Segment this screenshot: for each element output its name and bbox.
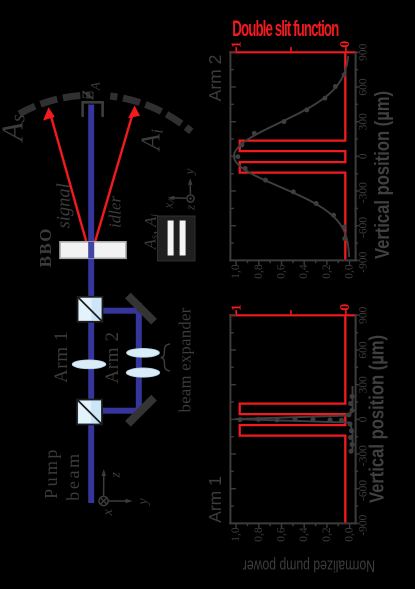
pump line through BBO [88,242,94,258]
interferometer arm-2 loop vertical blue line [136,303,142,413]
svg-text:0,2: 0,2 [321,527,333,542]
beam expander lens 2 (Arm 2) [126,368,160,377]
Arm 1: power-axis ticks [349,523,351,528]
svg-text:xA: xA [160,197,176,210]
Arm 2: red right-axis spine [229,51,356,53]
svg-text:1: 1 [229,41,244,48]
svg-text:0,4: 0,4 [298,264,310,279]
Arm 2: power-axis ticks [349,260,351,265]
svg-text:zA: zA [73,82,102,100]
svg-text:0,6: 0,6 [276,264,288,279]
brace for beam expander [161,344,171,371]
Arm 1: data points [238,394,355,454]
mirror M1 (lower right) [125,395,157,427]
svg-text:As: As [0,114,30,143]
slit 2 (white) [180,221,186,256]
svg-text:0,4: 0,4 [298,527,310,542]
wire: blue connector BS1-to-mirror M1 (lower) [94,408,142,414]
slit 1 (white) [168,221,174,256]
Arm 2: black axis spines [229,52,356,261]
svg-text:-300: -300 [358,182,370,203]
Arm 2: black gaussian pump-profile curve [234,56,349,257]
Arm 1: red right-axis spine [229,314,356,316]
svg-text:Double slit function: Double slit function [232,17,338,41]
svg-text:Normalized pump power: Normalized pump power [243,556,375,574]
Arm 2: data points [235,72,347,241]
svg-text:0,8: 0,8 [253,527,265,542]
detection plane bracket at z_A [83,102,103,117]
Arm 1: black axis spines [229,315,356,524]
svg-text:y: y [136,498,151,507]
far-field dashed arc (left part) [19,95,90,114]
double slit aperture icon [158,216,196,261]
svg-text:Vertical position (µm): Vertical position (µm) [370,91,393,259]
svg-text:-600: -600 [358,217,370,238]
svg-text:signal: signal [54,183,74,228]
svg-text:0: 0 [338,41,353,48]
Arm 2: red double-slit transmission function [240,53,346,259]
aperture-plane axes (z out of page, x_A, y) [168,178,195,202]
svg-text:0,0: 0,0 [344,527,356,542]
svg-text:BBO: BBO [36,227,55,267]
svg-text:Ai: Ai [136,129,167,153]
svg-text:900: 900 [358,43,370,61]
svg-text:Vertical position (µm): Vertical position (µm) [365,335,388,503]
svg-text:Arm 2: Arm 2 [205,55,225,102]
svg-text:0,0: 0,0 [344,264,356,279]
svg-text:z: z [108,472,123,479]
wire: blue connector mirror M2-to-BS2 (upper) [94,308,142,314]
far-field dashed arc (right part) [110,96,191,131]
svg-text:1: 1 [229,304,244,311]
beam splitter cube BS1 (pump input) [77,400,102,425]
svg-text:900: 900 [358,306,370,324]
svg-text:y: y [182,168,197,176]
lens in Arm 1 (on main line) [72,360,106,369]
beam expander lens 1 (Arm 2) [127,348,160,357]
svg-text:0: 0 [338,304,353,311]
svg-text:Arm 1: Arm 1 [51,331,72,383]
Arm 1: red double-slit transmission function [240,316,346,522]
svg-text:-900: -900 [358,514,370,535]
svg-text:0,6: 0,6 [276,527,288,542]
svg-text:0,8: 0,8 [253,264,265,279]
svg-text:z: z [183,205,198,211]
BBO crystal [60,242,126,258]
Arm 1: red axis ticks [236,310,346,314]
lab coordinate axes (x into page, z, y) [99,469,133,506]
svg-text:Pump: Pump [41,447,61,499]
svg-text:1,0: 1,0 [230,527,242,542]
svg-text:1,0: 1,0 [230,264,242,279]
mirror M2 (upper right) [125,293,157,325]
Arm 2: red axis ticks [236,47,346,51]
idler ray (red, to A_i) [91,111,134,257]
svg-text:0: 0 [358,153,370,159]
svg-text:300: 300 [358,113,370,131]
svg-text:600: 600 [358,78,370,96]
svg-text:idler: idler [105,196,124,228]
beam splitter cube BS2 (recombining) [78,297,103,322]
svg-text:beam expander: beam expander [176,307,195,412]
svg-text:0,2: 0,2 [321,264,333,279]
Arm 1: position-axis ticks [230,315,358,528]
svg-text:Arm 2: Arm 2 [102,331,123,383]
svg-text:As, Ai: As, Ai [140,214,160,250]
svg-text:-900: -900 [358,251,370,272]
svg-text:beam: beam [63,451,83,500]
Arm 1: focused pump spike curve [235,386,353,452]
pump beam main blue line [88,105,94,504]
signal ray (red, to A_s) [43,106,140,258]
svg-text:x: x [101,508,116,516]
svg-text:Arm 1: Arm 1 [205,476,225,523]
Arm 2: position-axis ticks [230,52,358,265]
